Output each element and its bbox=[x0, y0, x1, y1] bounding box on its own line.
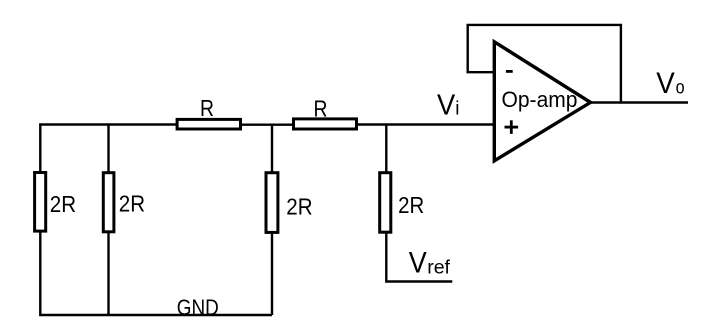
svg-text:2R: 2R bbox=[50, 191, 76, 217]
wire: output to Vo terminal bbox=[589, 101, 688, 103]
op-amp non-inverting input plus sign bbox=[505, 126, 519, 129]
op-amp U1 triangle bbox=[494, 42, 590, 161]
resistor 2R #4 bbox=[380, 173, 391, 233]
svg-text:ref: ref bbox=[427, 256, 450, 278]
svg-text:V: V bbox=[656, 67, 675, 100]
svg-text:o: o bbox=[676, 77, 685, 99]
resistor R2 bbox=[294, 119, 357, 129]
wire: vertical branch 3 bbox=[271, 125, 273, 316]
svg-text:2R: 2R bbox=[398, 192, 424, 218]
svg-text:2R: 2R bbox=[286, 193, 312, 219]
svg-text:R: R bbox=[200, 95, 214, 121]
op-amp inverting input minus sign bbox=[506, 70, 513, 73]
svg-text:V: V bbox=[437, 89, 456, 121]
wire: rail between R1 and R2 bbox=[242, 123, 293, 125]
svg-text:GND: GND bbox=[177, 295, 219, 320]
svg-text:V: V bbox=[409, 247, 427, 280]
resistor R1 bbox=[177, 119, 240, 129]
wire: vertical branch 2 bbox=[107, 125, 109, 316]
svg-text:Op-amp: Op-amp bbox=[502, 87, 578, 112]
wire: vertical branch 4 with Vref terminal stub bbox=[386, 125, 452, 282]
wire: left vertical + top rail segment + bottom GND rail bbox=[40, 125, 272, 316]
resistor 2R #1 bbox=[35, 173, 46, 232]
resistor 2R #2 bbox=[103, 173, 114, 232]
wire: op-amp feedback loop bbox=[468, 25, 621, 103]
resistor 2R #3 bbox=[266, 173, 278, 233]
svg-text:R: R bbox=[314, 96, 328, 122]
svg-text:2R: 2R bbox=[119, 190, 145, 216]
svg-text:i: i bbox=[455, 98, 459, 119]
wire: rail from R2 to op-amp input (node Vi) bbox=[357, 123, 494, 125]
